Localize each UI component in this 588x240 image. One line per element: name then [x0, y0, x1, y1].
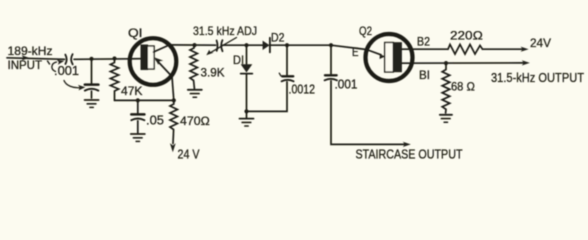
svg-text:D2: D2 — [271, 31, 285, 45]
node staircase junction — [329, 43, 333, 47]
leader arrow to shunt cap — [64, 81, 81, 88]
transistor Q2 circle — [366, 34, 413, 81]
capacitor .05 — [137, 100, 139, 113]
ground shunt cap — [85, 99, 99, 101]
wire shunt cap down — [91, 59, 93, 83]
svg-text:220Ω: 220Ω — [450, 29, 483, 43]
svg-text:BI: BI — [419, 68, 430, 82]
resistor 220 — [448, 45, 483, 55]
svg-text:24V: 24V — [530, 36, 551, 50]
node D1 bottom junction — [244, 109, 248, 113]
wire input with arrow — [7, 58, 65, 60]
node 3.9K junction — [192, 43, 196, 47]
transistor Q2 emitter lead — [367, 50, 382, 55]
node 47K junction — [112, 56, 116, 60]
diode D1 — [246, 45, 248, 64]
leader tick — [48, 61, 50, 64]
wire input cap to Q1 base — [74, 58, 141, 61]
svg-text:47K: 47K — [121, 84, 143, 98]
wire 220 to 24V arrow — [483, 48, 526, 50]
diode D2 — [263, 41, 270, 50]
transistor Q1 base bar — [141, 45, 149, 71]
transistor Q1 collector lead — [154, 45, 170, 52]
wire B2 to 220 — [402, 48, 448, 50]
node shunt cap junction — [89, 57, 93, 61]
svg-text:.001: .001 — [335, 78, 358, 92]
ground 3.9K — [188, 89, 202, 91]
resistor 3.9K — [190, 45, 197, 88]
ground 68 — [440, 114, 452, 116]
wire emitter net horizontal — [115, 99, 174, 101]
capacitor .001 second — [330, 45, 332, 74]
svg-text:470Ω: 470Ω — [180, 114, 210, 128]
svg-text:INPUT: INPUT — [8, 58, 43, 72]
svg-text:68 Ω: 68 Ω — [451, 80, 475, 94]
svg-text:24 V: 24 V — [178, 148, 200, 162]
svg-text:31.5-kHz OUTPUT: 31.5-kHz OUTPUT — [491, 70, 584, 85]
wire collector to varcap — [170, 44, 216, 46]
variable capacitor plates — [216, 41, 219, 51]
svg-text:Q2: Q2 — [359, 24, 372, 38]
resistor 470 — [170, 100, 177, 143]
svg-text:.0012: .0012 — [289, 83, 316, 97]
wire staircase output — [331, 81, 407, 145]
transistor Q1 emitter lead — [156, 60, 174, 101]
ground .05 — [131, 133, 145, 135]
node D1 junction — [244, 43, 248, 47]
transistor Q1 circle — [130, 38, 177, 85]
resistor 68 — [442, 63, 450, 113]
svg-text:31.5 kHz ADJ: 31.5 kHz ADJ — [193, 24, 257, 38]
capacitor C2 shunt plates — [85, 83, 99, 86]
wire B1 output — [402, 62, 526, 64]
node .0012 junction — [285, 43, 289, 47]
ground D1 — [246, 111, 248, 117]
arrow 24V down — [170, 143, 176, 152]
svg-text:3.9K: 3.9K — [201, 66, 225, 80]
node 68 junction — [444, 61, 448, 65]
capacitor .0012 — [286, 45, 288, 75]
svg-text:E: E — [352, 45, 359, 59]
transistor Q2 base bar — [385, 43, 394, 73]
variable capacitor arrow — [210, 38, 237, 54]
svg-text:STAIRCASE OUTPUT: STAIRCASE OUTPUT — [356, 148, 463, 162]
node emitter junction — [172, 98, 176, 102]
svg-text:.05: .05 — [146, 114, 164, 128]
svg-text:.001: .001 — [54, 64, 79, 78]
wire to Q2 emitter — [331, 45, 367, 49]
svg-text:189-kHz: 189-kHz — [8, 44, 53, 58]
wire D2 to C junction — [270, 44, 331, 46]
node .05 junction — [136, 98, 140, 102]
capacitor C .001 input series plates — [65, 55, 66, 64]
svg-text:QI: QI — [128, 26, 143, 40]
svg-text:B2: B2 — [417, 35, 430, 49]
resistor 47K — [110, 59, 118, 101]
leader arrow to series cap — [52, 62, 57, 72]
wire varcap to D2 — [223, 44, 263, 46]
